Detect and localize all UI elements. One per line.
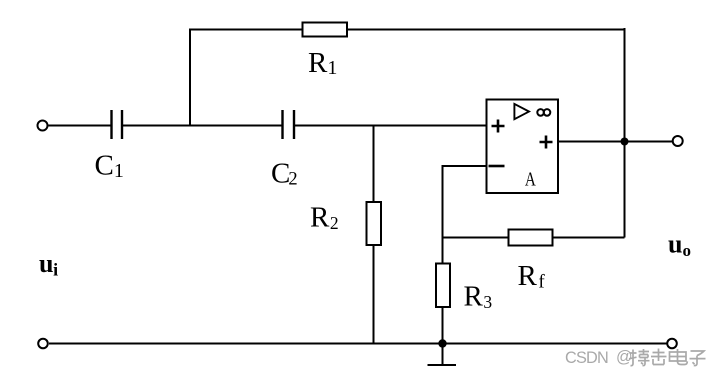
svg-text:@: @ [616, 348, 633, 366]
svg-text:A: A [525, 167, 536, 190]
svg-text:CSDN: CSDN [565, 349, 608, 367]
